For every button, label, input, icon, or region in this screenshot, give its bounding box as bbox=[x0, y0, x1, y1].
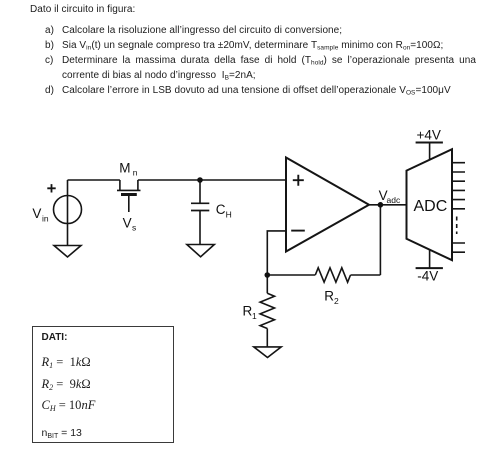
svg-text:-4V: -4V bbox=[417, 269, 438, 284]
svg-text:R: R bbox=[243, 304, 253, 319]
svg-text:2: 2 bbox=[334, 296, 339, 306]
svg-text:in: in bbox=[42, 213, 49, 223]
svg-text:V: V bbox=[123, 216, 132, 231]
svg-text:1: 1 bbox=[252, 311, 257, 321]
svg-text:C: C bbox=[216, 202, 226, 217]
svg-text:V: V bbox=[32, 206, 41, 221]
svg-text:s: s bbox=[132, 223, 136, 233]
svg-text:adc: adc bbox=[387, 195, 401, 205]
svg-text:M: M bbox=[119, 161, 130, 176]
svg-text:n: n bbox=[133, 168, 138, 178]
svg-text:R: R bbox=[324, 289, 334, 304]
svg-text:H: H bbox=[226, 209, 232, 219]
svg-text:ADC: ADC bbox=[414, 198, 448, 215]
svg-text:+4V: +4V bbox=[417, 127, 441, 142]
